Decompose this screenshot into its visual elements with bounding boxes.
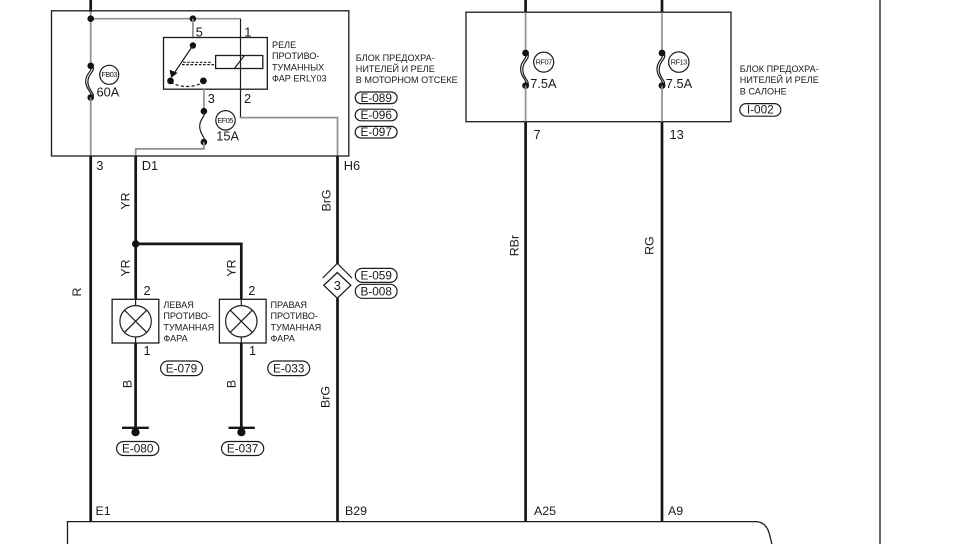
wire relay pin2 to block pin H6 <box>240 118 338 156</box>
relay coil wire pin1-pin2 <box>240 38 242 89</box>
connector label E-037 <box>222 442 264 456</box>
svg-text:БЛОК ПРЕДОХРА-: БЛОК ПРЕДОХРА- <box>740 64 819 74</box>
relay contact dot left <box>167 78 174 85</box>
relay contact dot pin3 <box>200 78 207 85</box>
svg-text:РЕЛЕ: РЕЛЕ <box>272 40 296 50</box>
wire EF05 to block pin D1 <box>136 142 204 156</box>
wire B right lamp to ground <box>240 343 243 428</box>
svg-text:13: 13 <box>670 127 684 142</box>
svg-text:ТУМАННАЯ: ТУМАННАЯ <box>163 322 214 332</box>
wire relay pin3 to fuse EF05 <box>203 89 205 111</box>
svg-text:2: 2 <box>248 283 255 298</box>
svg-text:В МОТОРНОМ ОТСЕКЕ: В МОТОРНОМ ОТСЕКЕ <box>356 75 458 85</box>
wire feed bus inside block (vertical to fuse FB03) <box>90 12 92 67</box>
svg-text:R: R <box>70 287 84 296</box>
wire RG: pin 13 down to A9 <box>661 122 664 521</box>
svg-text:3: 3 <box>334 278 341 293</box>
svg-text:ТУМАННЫХ: ТУМАННЫХ <box>272 63 324 73</box>
svg-text:E-096: E-096 <box>360 108 392 122</box>
svg-text:3: 3 <box>96 158 103 173</box>
relay switch arrowhead <box>170 70 178 78</box>
fuse RF13 7.5A <box>657 50 693 91</box>
svg-text:НИТЕЛЕЙ И РЕЛЕ: НИТЕЛЕЙ И РЕЛЕ <box>356 63 435 74</box>
connector label I-002 <box>740 103 781 117</box>
svg-text:НИТЕЛЕЙ И РЕЛЕ: НИТЕЛЕЙ И РЕЛЕ <box>740 74 819 85</box>
svg-text:B: B <box>225 380 239 388</box>
wire to fuse RF07 <box>525 12 527 53</box>
page border <box>879 0 881 544</box>
svg-text:RF13: RF13 <box>671 58 687 67</box>
svg-text:E-079: E-079 <box>166 361 197 375</box>
svg-text:RF07: RF07 <box>536 58 552 67</box>
svg-text:YR: YR <box>119 259 133 276</box>
svg-text:ПРОТИВО-: ПРОТИВО- <box>272 51 319 61</box>
svg-text:7.5A: 7.5A <box>666 76 693 91</box>
relay coil box <box>216 56 263 69</box>
svg-text:1: 1 <box>144 343 151 358</box>
junction YR branch <box>132 240 139 247</box>
svg-text:ПРОТИВО-: ПРОТИВО- <box>163 311 210 321</box>
relay pin 5 contact dot <box>190 42 196 48</box>
svg-text:ТУМАННАЯ: ТУМАННАЯ <box>271 322 322 332</box>
fuse RF07 7.5A <box>521 50 557 91</box>
svg-text:RBr: RBr <box>508 235 522 256</box>
wire BrG: block pin H6 down to connector <box>336 156 339 265</box>
svg-text:ПРАВАЯ: ПРАВАЯ <box>271 300 307 310</box>
fuse FB03 60A <box>86 63 120 101</box>
wire battery feed top into engine fuse block <box>89 0 92 12</box>
connector label B-008 <box>355 284 397 298</box>
wire R: block pin3 down to ground splice E1 <box>89 156 92 522</box>
wire relay pin2 down <box>240 89 242 118</box>
svg-text:ФАР ERLY03: ФАР ERLY03 <box>272 74 327 84</box>
svg-text:1: 1 <box>249 343 256 358</box>
fuse EF05 15A <box>200 108 240 145</box>
wire RBr: pin 7 down to A25 <box>524 122 527 521</box>
wire to relay pin 5 <box>192 19 194 38</box>
svg-text:D1: D1 <box>142 158 158 173</box>
svg-text:ФАРА: ФАРА <box>271 334 296 344</box>
svg-text:YR: YR <box>225 259 239 276</box>
svg-text:A25: A25 <box>534 504 556 518</box>
svg-text:E-033: E-033 <box>273 361 305 375</box>
ground E-080 <box>122 428 149 437</box>
svg-text:E-080: E-080 <box>122 442 154 456</box>
svg-text:1: 1 <box>244 24 251 39</box>
bottom connector box <box>68 522 772 544</box>
ground E-037 <box>229 428 255 437</box>
wire B left lamp to ground <box>134 343 137 428</box>
junction bus/FB03 <box>87 15 94 22</box>
relay fog lamps ERLY03 box <box>164 38 268 90</box>
junction bus/pin5 <box>190 15 197 22</box>
relay switch arm <box>175 46 193 73</box>
connector label E-059 <box>355 268 397 282</box>
connector label E-089 <box>355 91 397 105</box>
relay coil diagonal <box>234 56 244 69</box>
svg-text:RG: RG <box>643 236 657 255</box>
left fog lamp E-079 <box>112 299 159 343</box>
svg-text:A9: A9 <box>668 504 683 518</box>
svg-text:ПРОТИВО-: ПРОТИВО- <box>271 311 318 321</box>
svg-text:BrG: BrG <box>320 189 334 211</box>
svg-text:E1: E1 <box>96 504 111 518</box>
wire RF07 to pin 7 <box>525 86 527 122</box>
svg-text:FB03: FB03 <box>101 70 117 79</box>
wire RF13 to pin 13 <box>661 86 663 122</box>
svg-text:60A: 60A <box>97 85 120 100</box>
relay linkage dashed lines <box>183 61 212 63</box>
svg-text:H6: H6 <box>344 158 360 173</box>
connector label E-096 <box>355 108 397 122</box>
cabin fuse/relay block box <box>466 12 731 122</box>
svg-text:E-089: E-089 <box>360 91 391 105</box>
svg-text:B: B <box>121 380 135 388</box>
connector label E-080 <box>117 442 159 456</box>
connector label E-033 <box>268 361 310 376</box>
svg-text:2: 2 <box>244 91 251 106</box>
wire feed top to cabin fuse block (RBr side) <box>524 0 527 13</box>
wire feed bus horizontal to relay pins <box>91 18 241 20</box>
wire feed top to cabin fuse block (RG side) <box>661 0 664 13</box>
right fog lamp E-033 <box>219 299 266 343</box>
engine compartment fuse/relay block box <box>52 11 349 156</box>
wire to fuse RF13 <box>661 12 663 53</box>
svg-text:E-037: E-037 <box>227 442 258 456</box>
svg-text:I-002: I-002 <box>747 103 774 117</box>
inline connector chevron <box>323 263 352 278</box>
svg-text:7.5A: 7.5A <box>530 76 557 91</box>
wire FB03 to block pin 3 <box>90 98 92 156</box>
svg-text:ЛЕВАЯ: ЛЕВАЯ <box>163 300 193 310</box>
wire BrG: connector down to B29 <box>336 298 339 521</box>
svg-text:BrG: BrG <box>319 386 333 408</box>
connector label E-079 <box>161 361 203 376</box>
svg-text:БЛОК ПРЕДОХРА-: БЛОК ПРЕДОХРА- <box>356 53 435 63</box>
relay contact dashed arc <box>171 83 204 87</box>
svg-text:В САЛОНЕ: В САЛОНЕ <box>740 86 787 96</box>
svg-text:B29: B29 <box>345 504 367 518</box>
wire to relay pin 1 <box>240 19 242 38</box>
svg-text:15A: 15A <box>216 129 239 144</box>
svg-text:2: 2 <box>144 283 151 298</box>
svg-text:5: 5 <box>196 24 203 39</box>
svg-text:B-008: B-008 <box>360 284 392 298</box>
connector label E-097 <box>355 125 397 139</box>
svg-text:3: 3 <box>208 91 215 106</box>
svg-text:E-059: E-059 <box>360 269 391 283</box>
inline connector diamond pin 3 <box>324 273 351 299</box>
wire YR branch to right lamp <box>136 244 242 299</box>
svg-text:YR: YR <box>119 192 133 209</box>
svg-text:7: 7 <box>534 127 541 142</box>
wire YR: block pin D1 down to lamps <box>134 156 137 300</box>
svg-text:EF05: EF05 <box>217 116 233 125</box>
svg-text:ФАРА: ФАРА <box>163 334 188 344</box>
svg-text:E-097: E-097 <box>360 125 391 139</box>
